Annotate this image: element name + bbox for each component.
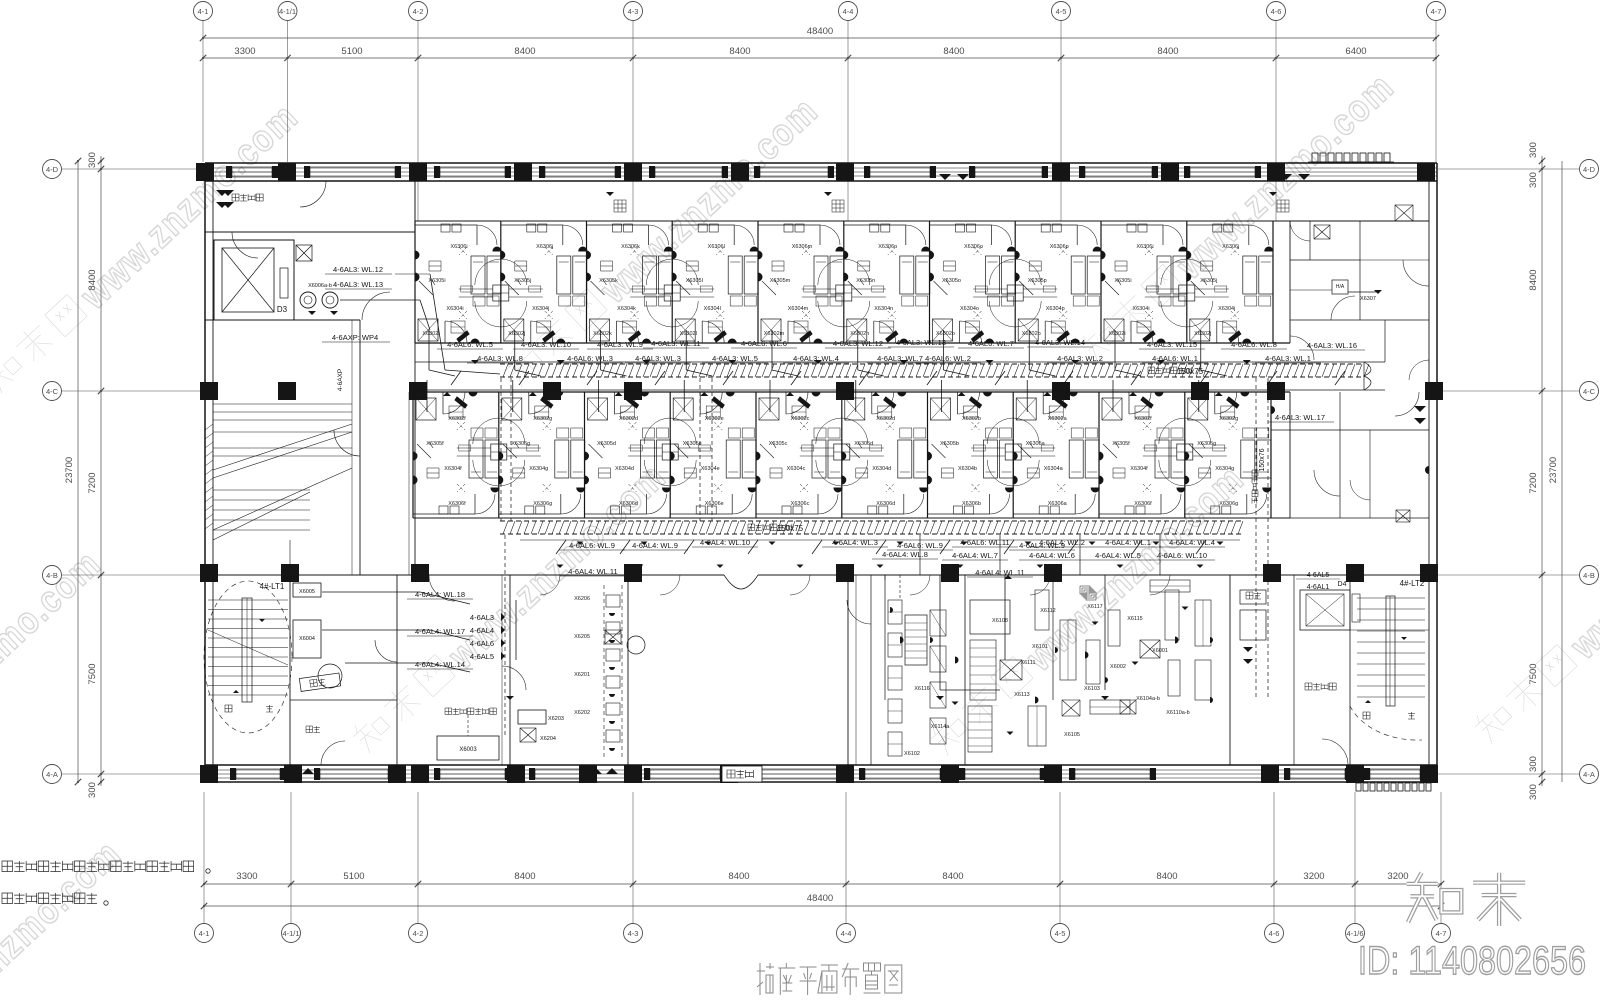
svg-text:X6110a-b: X6110a-b	[1166, 710, 1189, 716]
svg-text:4-6AL4: WL.6: 4-6AL4: WL.6	[1029, 551, 1075, 560]
axis 4-4 top	[839, 2, 858, 21]
svg-text:X6305f: X6305f	[1112, 441, 1130, 447]
axis 4-1 top	[194, 2, 213, 21]
wind shaft boxes	[1240, 590, 1266, 604]
svg-text:X6302c: X6302c	[791, 416, 810, 422]
svg-text:X6302f: X6302f	[448, 416, 466, 422]
corridor1 walls	[415, 361, 1385, 363]
svg-text:X6203: X6203	[548, 716, 564, 722]
svg-text:X6306b: X6306b	[962, 501, 981, 507]
band edges vertical	[414, 181, 416, 221]
axis 4-7 top	[1427, 2, 1446, 21]
svg-text:4-6AL4: WL.18: 4-6AL4: WL.18	[415, 590, 465, 599]
svg-text:X6306l: X6306l	[708, 244, 725, 250]
svg-text:4-6AL3: WL.8: 4-6AL3: WL.8	[477, 354, 523, 363]
svg-text:4-6: 4-6	[1271, 7, 1282, 16]
freight lobby walls	[205, 231, 415, 233]
svg-text:4-6AL3: WL.2: 4-6AL3: WL.2	[1057, 354, 1103, 363]
svg-text:X6005: X6005	[299, 589, 315, 595]
svg-text:4-6AL3: WL.12: 4-6AL3: WL.12	[333, 265, 383, 274]
svg-text:4-B: 4-B	[1583, 571, 1595, 580]
fengjing box	[299, 673, 340, 691]
watermark znzmo	[1077, 65, 1403, 373]
svg-text:X6201: X6201	[574, 672, 590, 678]
svg-text:X6306j: X6306j	[536, 244, 553, 250]
room B5	[756, 392, 842, 518]
suite bath xbox	[1314, 225, 1330, 239]
room B9	[1099, 392, 1185, 518]
svg-text:4#-LT2: 4#-LT2	[1400, 579, 1425, 588]
svg-text:X6102: X6102	[904, 751, 920, 757]
kitchen area	[884, 575, 886, 700]
svg-text:4#-LT1: 4#-LT1	[260, 582, 285, 591]
svg-text:4-6AL4: WL.3: 4-6AL4: WL.3	[832, 538, 878, 547]
svg-text:48400: 48400	[807, 893, 833, 904]
svg-text:X6302j: X6302j	[1194, 331, 1211, 337]
room T8	[1015, 221, 1101, 343]
svg-text:X6304i: X6304i	[446, 306, 463, 312]
svg-text:8400: 8400	[87, 269, 98, 290]
svg-text:X6307: X6307	[1360, 296, 1376, 302]
band2 bottom wall	[413, 517, 1290, 519]
svg-text:X6302d: X6302d	[619, 416, 638, 422]
svg-text:X6306e: X6306e	[705, 501, 724, 507]
svg-text:X6305d: X6305d	[854, 441, 873, 447]
hatch strip left wall	[205, 424, 213, 430]
svg-text:X6305f: X6305f	[426, 441, 444, 447]
room B3	[585, 392, 671, 518]
axis 4-A left	[43, 765, 62, 784]
axis 4-6 top	[1267, 2, 1286, 21]
svg-text:X6302e: X6302e	[705, 416, 724, 422]
windows top wall	[232, 167, 272, 177]
svg-text:X6305m: X6305m	[770, 278, 791, 284]
svg-text:4-6AL6: WL.11: 4-6AL6: WL.11	[960, 538, 1009, 547]
svg-text:8400: 8400	[514, 46, 535, 57]
watermark znzmo	[0, 95, 307, 403]
cross motifs band1	[459, 259, 543, 327]
genset room	[509, 575, 511, 765]
svg-text:4-6AL4: WL.17: 4-6AL4: WL.17	[415, 627, 465, 636]
svg-text:X6302b: X6302b	[962, 416, 981, 422]
columns top wall	[196, 163, 214, 181]
right suite walls	[1290, 220, 1429, 222]
corridor sockets	[557, 565, 564, 569]
corridor1 right end doors	[1363, 362, 1365, 390]
footnote line2	[2, 893, 97, 904]
svg-text:X6202: X6202	[574, 710, 590, 716]
X6203 X6204 boxes	[518, 710, 546, 724]
svg-text:X6306d: X6306d	[876, 501, 895, 507]
svg-text:X6304j: X6304j	[532, 306, 549, 312]
axis 4-1/6 bottom	[1346, 924, 1365, 943]
room B6	[842, 392, 928, 518]
svg-text:5100: 5100	[341, 46, 362, 57]
room B10	[1185, 392, 1271, 518]
svg-text:X6302i: X6302i	[1108, 331, 1125, 337]
columns bottom wall	[200, 765, 218, 783]
svg-text:X6105: X6105	[1064, 732, 1080, 738]
svg-text:300: 300	[1528, 142, 1539, 158]
svg-text:X6302n: X6302n	[850, 331, 869, 337]
svg-text:X6304e: X6304e	[701, 466, 720, 472]
svg-text:X6305d: X6305d	[597, 441, 616, 447]
svg-text:8400: 8400	[514, 871, 535, 882]
svg-text:X6205: X6205	[574, 634, 590, 640]
svg-text:X6306p: X6306p	[1050, 244, 1069, 250]
door marks top wall	[939, 174, 951, 180]
svg-text:8400: 8400	[728, 871, 749, 882]
axis 4-B right	[1580, 566, 1599, 585]
svg-text:X6306k: X6306k	[621, 244, 640, 250]
svg-text:3300: 3300	[234, 46, 255, 57]
vertical cable riser x1262 (150x76)	[1255, 378, 1257, 700]
elevator D4	[1300, 590, 1350, 630]
room T7	[930, 221, 1016, 343]
svg-text:4-6AL3: WL.10: 4-6AL3: WL.10	[521, 340, 571, 349]
axis 4-A right	[1580, 765, 1599, 784]
svg-text:4-7: 4-7	[1436, 929, 1447, 938]
svg-text:X6305a: X6305a	[1026, 441, 1046, 447]
svg-text:X6305j: X6305j	[1200, 278, 1217, 284]
svg-text:X6302l: X6302l	[680, 331, 697, 337]
axis 4-4 bottom	[837, 924, 856, 943]
svg-text:4-6AL6: WL.2: 4-6AL6: WL.2	[925, 354, 971, 363]
svg-text:X6304j: X6304j	[1218, 306, 1235, 312]
svg-text:D3: D3	[277, 305, 288, 314]
front room (he yong qian shi)	[1293, 575, 1295, 765]
svg-text:4-4: 4-4	[843, 7, 854, 16]
svg-text:4-6AL3: WL.3: 4-6AL3: WL.3	[635, 354, 681, 363]
room T3	[587, 221, 673, 343]
watermark znzmo	[1471, 445, 1600, 753]
svg-text:4-6AL4: WL.8: 4-6AL4: WL.8	[882, 550, 928, 559]
svg-text:4-6AL4: WL.14: 4-6AL4: WL.14	[415, 660, 465, 669]
room T1	[415, 221, 501, 343]
room B2	[499, 392, 585, 518]
dimension line total right	[1561, 161, 1563, 782]
svg-text:300: 300	[1528, 172, 1539, 188]
band2 right closing wall	[1270, 392, 1272, 518]
svg-text:X6117: X6117	[1087, 604, 1103, 610]
svg-text:X6112: X6112	[1040, 608, 1056, 614]
svg-text:X6206: X6206	[574, 596, 590, 602]
svg-text:X6004: X6004	[299, 636, 315, 642]
svg-text:X6304g: X6304g	[1215, 466, 1234, 472]
LT1 side rooms	[293, 583, 321, 597]
znzmo logo bottom right	[1407, 873, 1525, 926]
svg-text:4-6AL5: 4-6AL5	[470, 652, 494, 661]
svg-text:4-3: 4-3	[628, 7, 639, 16]
svg-text:4-1/6: 4-1/6	[1346, 929, 1363, 938]
band2 top wall	[413, 391, 1290, 393]
svg-text:4-D: 4-D	[46, 165, 59, 174]
svg-text:H/A: H/A	[1336, 284, 1345, 290]
svg-text:4-6AL4: WL.7: 4-6AL4: WL.7	[952, 551, 998, 560]
svg-text:7200: 7200	[87, 472, 98, 493]
svg-text:7500: 7500	[87, 663, 98, 684]
svg-text:X6003: X6003	[459, 747, 477, 753]
louvre comb top-right	[1312, 153, 1318, 162]
svg-text:X6302g: X6302g	[1219, 416, 1238, 422]
svg-text:8400: 8400	[1528, 269, 1539, 290]
svg-text:X6304l: X6304l	[704, 306, 721, 312]
svg-text:4-6AL6: WL.5: 4-6AL6: WL.5	[447, 340, 493, 349]
axis 4-D right	[1580, 160, 1599, 179]
suite fixtures	[1332, 280, 1348, 294]
svg-text:X6302m: X6302m	[764, 331, 785, 337]
svg-text:4-6AL3: WL.13: 4-6AL3: WL.13	[333, 280, 383, 289]
svg-text:4-1: 4-1	[199, 929, 210, 938]
axis 4-1/1 bottom	[282, 924, 301, 943]
svg-text:23700: 23700	[1548, 457, 1559, 483]
svg-text:4-6AL3: WL.14: 4-6AL3: WL.14	[1035, 338, 1085, 347]
svg-text:X6302f: X6302f	[1134, 416, 1152, 422]
watermark znzmo	[0, 832, 130, 1001]
svg-text:X6305e: X6305e	[683, 441, 702, 447]
svg-text:X6304a: X6304a	[1044, 466, 1064, 472]
axis 4-3 top	[624, 2, 643, 21]
svg-text:4-6AL3: WL.16: 4-6AL3: WL.16	[1307, 341, 1357, 350]
svg-text:23700: 23700	[64, 457, 75, 483]
floor riser symbols north corridor	[614, 200, 626, 212]
svg-text:4-6AL3: WL.13: 4-6AL3: WL.13	[896, 338, 946, 347]
watermark znzmo	[927, 457, 1253, 765]
svg-text:4-C: 4-C	[46, 387, 59, 396]
exterior wall right	[1436, 163, 1438, 782]
svg-text:4-6AL3: WL.12: 4-6AL3: WL.12	[833, 339, 883, 348]
svg-text:X6306m: X6306m	[792, 244, 813, 250]
svg-text:X6304f: X6304f	[1130, 466, 1148, 472]
svg-text:4-4: 4-4	[841, 929, 852, 938]
svg-text:150x76: 150x76	[1259, 448, 1266, 471]
svg-text:X6006a-b: X6006a-b	[308, 283, 332, 289]
svg-text:4-A: 4-A	[1583, 770, 1595, 779]
svg-text:8400: 8400	[943, 46, 964, 57]
svg-text:4-2: 4-2	[413, 7, 424, 16]
svg-text:X6114a: X6114a	[931, 724, 950, 730]
axis 4-5 bottom	[1051, 924, 1070, 943]
svg-text:X6305i: X6305i	[428, 278, 445, 284]
elevator D3	[214, 240, 294, 320]
columns corridor row (y 390)	[200, 382, 218, 400]
axis 4-2 bottom	[409, 924, 428, 943]
svg-text:X6302o: X6302o	[936, 331, 955, 337]
svg-text:X6306g: X6306g	[1219, 501, 1238, 507]
X6006a-b meters	[300, 292, 316, 308]
lower band door arcs along top wall	[540, 575, 560, 595]
svg-text:4-6AL4: WL.1: 4-6AL4: WL.1	[1105, 538, 1151, 547]
svg-text:4-6AL3: WL.5: 4-6AL3: WL.5	[712, 354, 758, 363]
svg-text:8400: 8400	[1157, 46, 1178, 57]
freight lobby label	[232, 194, 263, 201]
svg-text:4-6AL4: WL.9: 4-6AL4: WL.9	[1019, 541, 1065, 550]
ramp lines	[213, 403, 352, 405]
svg-text:4-6AL3: WL.7: 4-6AL3: WL.7	[877, 354, 923, 363]
svg-text:X6305i: X6305i	[1114, 278, 1131, 284]
svg-text:4-6AL6: WL.9: 4-6AL6: WL.9	[569, 541, 615, 550]
vertical cable riser x705	[699, 378, 701, 521]
svg-text:4-6AL3: WL.4: 4-6AL3: WL.4	[793, 354, 839, 363]
svg-text:X6302a: X6302a	[1048, 416, 1068, 422]
axis 4-C left	[43, 382, 62, 401]
svg-text:X6116: X6116	[914, 686, 930, 692]
room B4	[670, 392, 756, 518]
svg-text:3200: 3200	[1303, 871, 1324, 882]
svg-text:X6305l: X6305l	[686, 278, 703, 284]
axis 4-C right	[1580, 382, 1599, 401]
svg-text:X6001: X6001	[1152, 648, 1168, 654]
svg-text:X6304c: X6304c	[787, 466, 806, 472]
svg-text:X6304o: X6304o	[960, 306, 979, 312]
svg-text:X6002: X6002	[1110, 664, 1126, 670]
svg-text:4-1/1: 4-1/1	[282, 929, 299, 938]
cable tray corridor2 150x75	[500, 520, 1243, 522]
room wiring drops band1	[428, 330, 430, 370]
svg-text:4-6AL4: WL.4: 4-6AL4: WL.4	[1169, 538, 1215, 547]
room B1	[413, 392, 499, 518]
svg-text:4-C: 4-C	[1583, 387, 1596, 396]
svg-text:X6304g: X6304g	[529, 466, 548, 472]
vertical cable riser x505	[500, 378, 502, 521]
svg-text:X6305n: X6305n	[856, 278, 875, 284]
watermark znzmo	[501, 89, 827, 397]
svg-text:X6302g: X6302g	[533, 416, 552, 422]
wires from D3	[340, 299, 420, 301]
stair LT1	[289, 575, 291, 765]
dimension line total top	[203, 37, 1436, 39]
svg-text:8400: 8400	[1156, 871, 1177, 882]
svg-text:X6304f: X6304f	[444, 466, 462, 472]
corridor2 wires	[520, 539, 1240, 541]
kitchen extra equipment	[1080, 586, 1090, 594]
svg-text:X6304m: X6304m	[788, 306, 809, 312]
room T6	[844, 221, 930, 343]
svg-text:X6113: X6113	[1014, 692, 1030, 698]
svg-text:X6305o: X6305o	[942, 278, 961, 284]
svg-text:4-6AL4: WL.5: 4-6AL4: WL.5	[1095, 551, 1141, 560]
watermark znzmo	[0, 542, 110, 850]
exterior wall top	[205, 162, 1437, 164]
svg-text:X6304n: X6304n	[874, 306, 893, 312]
right suite band2	[1271, 429, 1429, 431]
svg-text:X6304b: X6304b	[958, 466, 977, 472]
lower band top wall	[205, 574, 1429, 576]
axis 4-2 top	[409, 2, 428, 21]
axis 4-6 bottom	[1265, 924, 1284, 943]
room T2	[501, 221, 587, 343]
north corridor lower wall / room tops band1	[415, 220, 1290, 222]
room B7	[928, 392, 1014, 518]
svg-text:X6306d: X6306d	[619, 501, 638, 507]
svg-text:X6306j: X6306j	[1222, 244, 1239, 250]
svg-text:4-3: 4-3	[628, 929, 639, 938]
svg-text:X6101: X6101	[1032, 644, 1048, 650]
svg-text:4-6AL6: WL.1: 4-6AL6: WL.1	[1152, 354, 1198, 363]
cable tray corridor1 150x75	[500, 363, 1364, 365]
stair LT2	[1350, 629, 1429, 631]
svg-text:ID: 1140802656: ID: 1140802656	[1358, 939, 1586, 983]
svg-text:X6305g: X6305g	[511, 441, 530, 447]
svg-text:300: 300	[1528, 756, 1539, 772]
svg-text:4-1: 4-1	[198, 7, 209, 16]
svg-text:X6305p: X6305p	[1028, 278, 1047, 284]
svg-text:4-6AL6: 4-6AL6	[470, 639, 494, 648]
svg-text:5100: 5100	[343, 871, 364, 882]
svg-text:4-B: 4-B	[46, 571, 58, 580]
svg-text:4-6AL5: 4-6AL5	[1307, 572, 1330, 579]
exterior wall left	[204, 163, 206, 782]
svg-text:X6302i: X6302i	[422, 331, 439, 337]
svg-text:4-6AL3: WL.11: 4-6AL3: WL.11	[651, 339, 700, 348]
axis 4-B left	[43, 566, 62, 585]
wire slash marks corridor1	[451, 371, 461, 385]
svg-text:X6304d: X6304d	[872, 466, 891, 472]
svg-text:X6104a-b: X6104a-b	[1136, 696, 1160, 702]
svg-text:X6108: X6108	[992, 618, 1008, 624]
warning triangles right wall	[1414, 406, 1426, 412]
svg-text:4-6AL3: WL.1: 4-6AL3: WL.1	[1265, 354, 1311, 363]
flue label box bottom (you yan jing)	[722, 766, 762, 782]
svg-text:4-6AL4: WL.9: 4-6AL4: WL.9	[632, 541, 678, 550]
axis 4-5 top	[1052, 2, 1071, 21]
room 510-628 fixtures strip	[627, 575, 629, 765]
svg-text:X6304d: X6304d	[615, 466, 634, 472]
svg-text:4-6AXP: 4-6AXP	[337, 369, 344, 391]
svg-text:X6306f: X6306f	[448, 501, 466, 507]
svg-text:4-A: 4-A	[46, 770, 58, 779]
svg-text:X6111: X6111	[1020, 660, 1035, 666]
windows bottom wall	[236, 769, 280, 779]
svg-text:4-5: 4-5	[1055, 929, 1066, 938]
dimension line total bottom	[204, 905, 1441, 907]
svg-text:7200: 7200	[1528, 472, 1539, 493]
svg-text:8400: 8400	[729, 46, 750, 57]
svg-text:X6115: X6115	[1127, 616, 1143, 622]
svg-text:6400: 6400	[1345, 46, 1366, 57]
watermark znzmo	[349, 455, 675, 763]
svg-text:X6306c: X6306c	[791, 501, 810, 507]
svg-text:X6304i: X6304i	[1132, 306, 1149, 312]
svg-text:X6304p: X6304p	[1046, 306, 1065, 312]
svg-text:300: 300	[87, 152, 98, 168]
room T10	[1187, 221, 1273, 343]
room T4	[672, 221, 758, 343]
dimension line total left	[77, 161, 79, 782]
axis 4-1 bottom	[195, 924, 214, 943]
svg-text:4-2: 4-2	[413, 929, 424, 938]
svg-text:4-D: 4-D	[1583, 165, 1596, 174]
svg-text:4-6AL6: WL.10: 4-6AL6: WL.10	[1157, 551, 1207, 560]
exterior wall bottom	[205, 764, 1437, 766]
comb bottom-right	[1356, 783, 1361, 791]
svg-text:X6302d: X6302d	[876, 416, 895, 422]
columns 4-B row (y 571)	[200, 564, 218, 582]
room T9	[1101, 221, 1187, 343]
svg-text:4-6AL6: WL.8: 4-6AL6: WL.8	[1231, 340, 1277, 349]
axis 4-1/1 top	[278, 2, 297, 21]
svg-text:X6302k: X6302k	[593, 331, 612, 337]
entry marks bottom wall	[288, 768, 300, 774]
corridor 848-885	[870, 575, 872, 765]
band1 right closing wall	[1272, 221, 1274, 343]
svg-text:7500: 7500	[1528, 663, 1539, 684]
dimension line segments top	[203, 57, 1436, 59]
svg-text:X6306i: X6306i	[450, 244, 467, 250]
axis 4-3 bottom	[624, 924, 643, 943]
svg-text:X6306o: X6306o	[964, 244, 983, 250]
svg-text:4-1/1: 4-1/1	[279, 7, 296, 16]
